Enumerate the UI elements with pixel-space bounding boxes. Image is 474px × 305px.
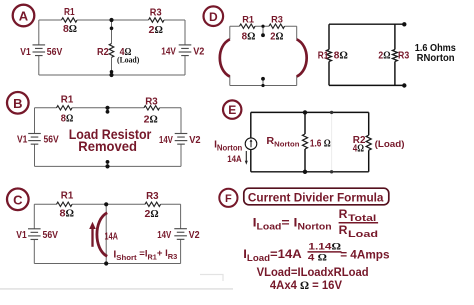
svg-text:8Ω: 8Ω	[334, 50, 348, 61]
svg-text:ILoad= INorton: ILoad= INorton	[253, 216, 332, 232]
svg-text:14V: 14V	[159, 134, 173, 146]
svg-text:Load: Load	[348, 229, 378, 240]
svg-text:56V: 56V	[47, 46, 63, 58]
svg-text:= 4Amps: = 4Amps	[340, 247, 390, 261]
svg-text:56V: 56V	[43, 229, 59, 241]
svg-text:R2: R2	[97, 47, 109, 58]
svg-text:8Ω: 8Ω	[61, 112, 73, 124]
svg-text:2Ω: 2Ω	[144, 113, 158, 125]
svg-text:14A: 14A	[105, 232, 119, 243]
svg-text:E: E	[228, 103, 236, 117]
svg-text:2Ω: 2Ω	[149, 24, 163, 36]
svg-text:Current Divider Formula: Current Divider Formula	[248, 192, 384, 204]
svg-text:IShort =IR1+ IR3: IShort =IR1+ IR3	[113, 248, 177, 262]
svg-text:D: D	[209, 10, 218, 24]
svg-text:2Ω: 2Ω	[270, 32, 283, 43]
svg-text:R3: R3	[271, 14, 283, 25]
svg-text:4Ω: 4Ω	[353, 143, 364, 154]
svg-text:R: R	[339, 207, 348, 221]
svg-text:ILoad=14A: ILoad=14A	[243, 247, 302, 263]
svg-text:V1: V1	[17, 134, 28, 145]
svg-text:R1: R1	[61, 95, 74, 106]
svg-text:8Ω: 8Ω	[63, 23, 77, 35]
svg-text:8Ω: 8Ω	[60, 207, 75, 219]
svg-text:V2: V2	[193, 47, 205, 58]
svg-text:R1: R1	[64, 7, 75, 18]
svg-text:RNorton: RNorton	[266, 135, 299, 149]
svg-text:R: R	[339, 223, 348, 237]
svg-text:2Ω: 2Ω	[378, 50, 390, 61]
svg-text:R3: R3	[146, 191, 159, 202]
svg-text:8Ω: 8Ω	[242, 32, 256, 43]
svg-text:R3: R3	[150, 8, 162, 19]
svg-text:56V: 56V	[44, 133, 59, 145]
svg-text:R1: R1	[61, 191, 74, 202]
svg-text:V1: V1	[16, 230, 27, 241]
svg-text:4 Ω: 4 Ω	[308, 253, 328, 264]
svg-text:R1: R1	[318, 50, 329, 61]
svg-text:V1: V1	[20, 47, 31, 58]
svg-text:Removed: Removed	[78, 138, 137, 154]
svg-text:4Ax4 Ω = 16V: 4Ax4 Ω = 16V	[270, 278, 342, 292]
svg-text:14V: 14V	[157, 229, 171, 241]
svg-text:(Load): (Load)	[117, 55, 140, 64]
svg-text:R3: R3	[398, 50, 410, 61]
svg-text:1.14Ω: 1.14Ω	[308, 241, 341, 252]
svg-text:14A: 14A	[227, 154, 242, 165]
svg-text:RNorton: RNorton	[417, 52, 455, 64]
svg-text:A: A	[19, 9, 29, 24]
svg-text:F: F	[225, 193, 232, 205]
svg-text:INorton: INorton	[214, 139, 242, 153]
svg-text:V2: V2	[189, 230, 200, 241]
svg-text:VLoad=ILoadxRLoad: VLoad=ILoadxRLoad	[257, 265, 369, 279]
svg-text:R3: R3	[145, 97, 158, 108]
svg-text:B: B	[13, 96, 22, 111]
svg-text:2Ω: 2Ω	[145, 208, 159, 220]
svg-text:14V: 14V	[161, 46, 176, 58]
svg-text:(Load): (Load)	[375, 139, 405, 150]
svg-text:R1: R1	[242, 14, 254, 25]
svg-text:V2: V2	[189, 135, 201, 146]
svg-text:C: C	[13, 192, 23, 207]
svg-text:1.6 Ω: 1.6 Ω	[310, 138, 331, 149]
